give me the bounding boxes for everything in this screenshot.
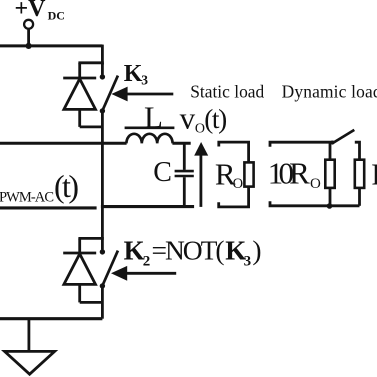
diode D2 cathode stub (78, 238, 81, 253)
inductor L coils (126, 134, 172, 144)
wire static load bottom (219, 187, 249, 207)
label RO (215, 156, 243, 192)
terminal +VDC (24, 20, 33, 29)
svg-text:+V: +V (15, 0, 47, 22)
wire 10RO branch top (329, 142, 332, 160)
wire K2 to bottom rail (101, 286, 104, 319)
svg-text:3: 3 (141, 73, 148, 88)
svg-text:L: L (144, 100, 163, 135)
svg-text:(t): (t) (54, 168, 79, 204)
wire dynamic load top (270, 142, 334, 147)
wire switched branch contact (355, 142, 360, 160)
switch K2 upper contact dot (100, 249, 105, 254)
label vPWM-AC(t) (0, 168, 79, 206)
wire dynamic load bottom (270, 201, 360, 206)
switch K2 bottom bar (80, 301, 103, 304)
label +VDC (15, 0, 65, 22)
resistor R switched box (355, 160, 364, 188)
diode D3 cathode bar (63, 77, 96, 80)
wire 10RO branch bottom (329, 188, 332, 206)
switch K3 lower contact dot (100, 108, 105, 113)
svg-text:DC: DC (48, 8, 65, 22)
diode D2 cathode bar (63, 252, 96, 255)
svg-text:PWM-AC: PWM-AC (0, 189, 54, 205)
arrow K3 control line (127, 93, 174, 96)
svg-text:O: O (233, 176, 243, 192)
svg-text:K: K (124, 236, 145, 266)
wire middle rail left (0, 142, 127, 145)
label vo(t) (180, 101, 228, 137)
svg-text:Static load: Static load (190, 81, 264, 101)
wire output return (101, 205, 194, 208)
svg-text:(t): (t) (204, 104, 227, 134)
svg-text:R: R (371, 157, 377, 192)
label K2=NOT(K3) (124, 235, 262, 270)
svg-text:10R: 10R (268, 156, 310, 191)
diode D2 anode stub (78, 284, 81, 302)
ground symbol (5, 351, 55, 374)
switch K2 blade (102, 251, 118, 286)
wire K3 to midrail to K2 vertical (101, 111, 104, 238)
capacitor C bottom plate (175, 175, 194, 178)
svg-text:2: 2 (143, 253, 151, 269)
arrow vo(t) head (194, 142, 208, 156)
switch K3 blade (102, 76, 118, 111)
switch K3 upper contact dot (100, 74, 105, 79)
junction dot at top rail (26, 43, 32, 49)
wire top DC rail (0, 44, 102, 47)
diode D3 anode stub (78, 109, 81, 127)
wire K3 feed vertical (101, 45, 104, 65)
switch K hinge dot (330, 141, 334, 145)
wire middle rail right (172, 142, 190, 145)
diode D3 cathode stub (78, 63, 81, 78)
svg-text:=NOT(: =NOT( (152, 235, 225, 266)
diode D2 triangle (64, 254, 96, 285)
switch K3 upper contact stub (101, 63, 104, 75)
label K3 (124, 61, 148, 88)
svg-text:C: C (153, 157, 172, 188)
wire switched branch bottom (358, 188, 361, 206)
svg-text:): ) (252, 235, 261, 266)
diode D3 triangle (64, 79, 96, 110)
switch K2 lower contact dot (100, 283, 105, 288)
arrow K3 control head (111, 87, 127, 102)
capacitor C top plate (175, 170, 194, 173)
arrow K2 control line (126, 272, 176, 275)
switch K2 upper contact stub (101, 238, 104, 249)
junction dot 10RO bottom (327, 203, 333, 209)
svg-text:O: O (310, 176, 321, 192)
arrow vo(t) shaft (199, 155, 202, 207)
wire VDC stem (27, 29, 30, 46)
wire ground stem (27, 319, 30, 352)
switch K3 top bar (78, 61, 103, 64)
svg-text:3: 3 (244, 253, 252, 269)
switch K3 bottom bar (80, 126, 103, 129)
switch K2 top bar (78, 237, 103, 240)
svg-text:v: v (180, 101, 196, 136)
resistor 10RO box (325, 160, 334, 188)
wire bottom rail (0, 317, 102, 320)
inductor L core bar (125, 126, 175, 129)
switch K blade (dynamic load) (332, 130, 355, 144)
wire capacitor bottom lead (183, 177, 186, 206)
arrow K2 control head (111, 266, 127, 281)
wire vPWM underline (0, 206, 97, 209)
svg-text:K: K (124, 61, 143, 87)
svg-text:Dynamic load: Dynamic load (282, 81, 377, 101)
wire static load top (219, 142, 249, 162)
resistor RO box (244, 162, 253, 186)
label 10RO (268, 156, 321, 193)
wire capacitor top lead (183, 142, 186, 170)
